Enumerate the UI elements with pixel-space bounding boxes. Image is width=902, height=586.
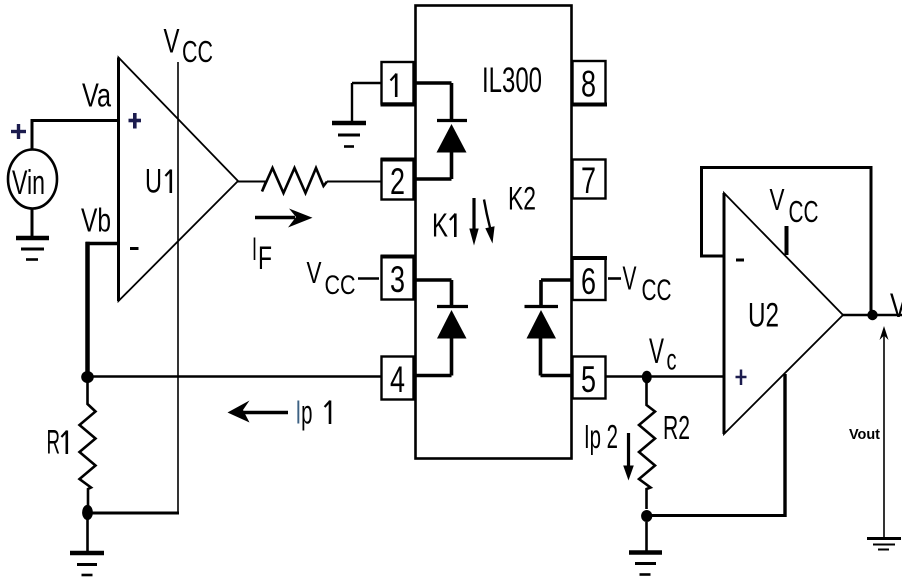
svg-text:Vin: Vin [12, 164, 45, 202]
svg-text:R: R [47, 424, 61, 462]
label IF [252, 231, 272, 276]
svg-text:7: 7 [581, 160, 596, 201]
svg-text:Ip: Ip [296, 394, 313, 431]
svg-text:3: 3 [390, 259, 405, 300]
coupling arrow 1 inside IL300 [469, 198, 478, 246]
svg-text:U2: U2 [748, 297, 779, 335]
wire pin 5 to node Vc [606, 375, 648, 377]
svg-text:Vout: Vout [849, 426, 880, 443]
coupling arrow 2 inside IL300 [484, 200, 495, 244]
ground below R1 [70, 553, 104, 575]
wire VCC vertical line through U1 down to R1 bottom [177, 62, 179, 514]
wire R1 bottom to ground [86, 519, 89, 552]
svg-text:V: V [649, 332, 664, 371]
LED between pin 1 and pin 2 [415, 83, 468, 179]
svg-text:V: V [307, 255, 322, 290]
svg-text:4: 4 [390, 359, 405, 400]
op-amp U1 minus input symbol [130, 247, 139, 250]
svg-text:2: 2 [390, 161, 405, 202]
svg-text:Ip 2: Ip 2 [584, 418, 618, 455]
ground at pin 1 [332, 123, 366, 147]
resistor R2 [639, 382, 690, 509]
Vout measurement arrow [880, 326, 889, 538]
VCC stub wire of U2 [785, 226, 789, 255]
wire node Vc to U2 non-inverting input [647, 375, 724, 377]
junction node at R2 bottom [641, 510, 652, 522]
svg-text:V: V [770, 182, 785, 217]
ground below Vout [867, 539, 901, 550]
wire R1 bottom to VCC line [88, 512, 180, 515]
svg-text:c: c [667, 344, 677, 377]
photodiode K1 between pin 3 and pin 4 [415, 280, 469, 376]
svg-text:U: U [145, 163, 162, 201]
VCC label of U1 [164, 23, 214, 70]
junction node Vc [642, 371, 652, 384]
svg-text:Va: Va [82, 77, 111, 114]
svg-text:V: V [890, 287, 902, 325]
current arrow IF [255, 209, 313, 228]
pin 1 box [381, 62, 416, 105]
wire Vb to U1 inverting input [86, 242, 118, 379]
pin 8 box [573, 61, 608, 105]
current arrow Ip 1 [228, 401, 289, 423]
wire U2 lower rail vertical [783, 374, 786, 517]
series resistor between U1 output and pin 2 [262, 168, 327, 193]
svg-text:CC: CC [182, 34, 213, 69]
wire U1 output to series resistor [237, 181, 266, 183]
svg-text:R2: R2 [663, 409, 690, 446]
svg-text:V: V [164, 23, 180, 61]
wire series resistor to pin 2 [327, 181, 381, 183]
VCC label at pin 6 [608, 260, 672, 308]
VCC label of U2 [770, 182, 819, 229]
pin 2 box [381, 160, 416, 203]
svg-text:8: 8 [581, 64, 596, 105]
wire Vin bottom to ground [31, 209, 34, 239]
wire U1 feedback node to pin 4 [87, 375, 381, 377]
photodiode K2 between pin 6 and pin 5 [525, 280, 573, 376]
op-amp U1 plus input symbol [129, 113, 142, 129]
wire pin 1 to ground [352, 83, 381, 122]
svg-text:I: I [252, 231, 257, 267]
resistor R1 [47, 379, 96, 506]
op-amp U2 plus input symbol [736, 370, 747, 386]
junction node at Vb and R1 top [81, 371, 94, 383]
pin 4 box [382, 357, 414, 401]
pin 3 box [381, 257, 416, 301]
voltage source Vin [8, 150, 57, 209]
current arrow Ip 2 [623, 433, 634, 481]
plus sign of Vin source [11, 124, 26, 139]
ground below R2 [629, 553, 662, 575]
VCC label at pin 3 [307, 255, 380, 300]
feedback loop wire of U2 [700, 168, 871, 316]
ground below Vin [16, 238, 49, 260]
IC IL300 body [416, 6, 572, 459]
op-amp U2 [724, 193, 843, 434]
pin 7 box [573, 160, 606, 202]
svg-text:K2: K2 [508, 181, 536, 217]
svg-text:CC: CC [325, 270, 356, 300]
svg-text:5: 5 [581, 359, 596, 400]
op-amp U1 [119, 58, 239, 302]
svg-text:CC: CC [789, 194, 819, 229]
svg-text:Vb: Vb [81, 202, 111, 239]
wire R2 bottom to U2 lower rail [647, 514, 787, 517]
junction node at R1 bottom [82, 505, 93, 520]
svg-text:F: F [258, 240, 272, 276]
svg-text:K: K [432, 207, 448, 244]
svg-text:IL300: IL300 [482, 61, 542, 100]
wire U2 output [842, 314, 902, 317]
svg-text:CC: CC [642, 274, 672, 307]
op-amp U2 minus input symbol [736, 259, 744, 262]
node Vc label [649, 332, 677, 377]
pin 5 box [573, 357, 606, 401]
pin 6 box [573, 258, 608, 302]
svg-text:6: 6 [581, 261, 596, 302]
wire R2 bottom to ground [645, 522, 648, 551]
junction node at U2 output [867, 310, 877, 320]
wire Vin top to Va node [31, 121, 120, 150]
svg-text:V: V [623, 260, 637, 297]
